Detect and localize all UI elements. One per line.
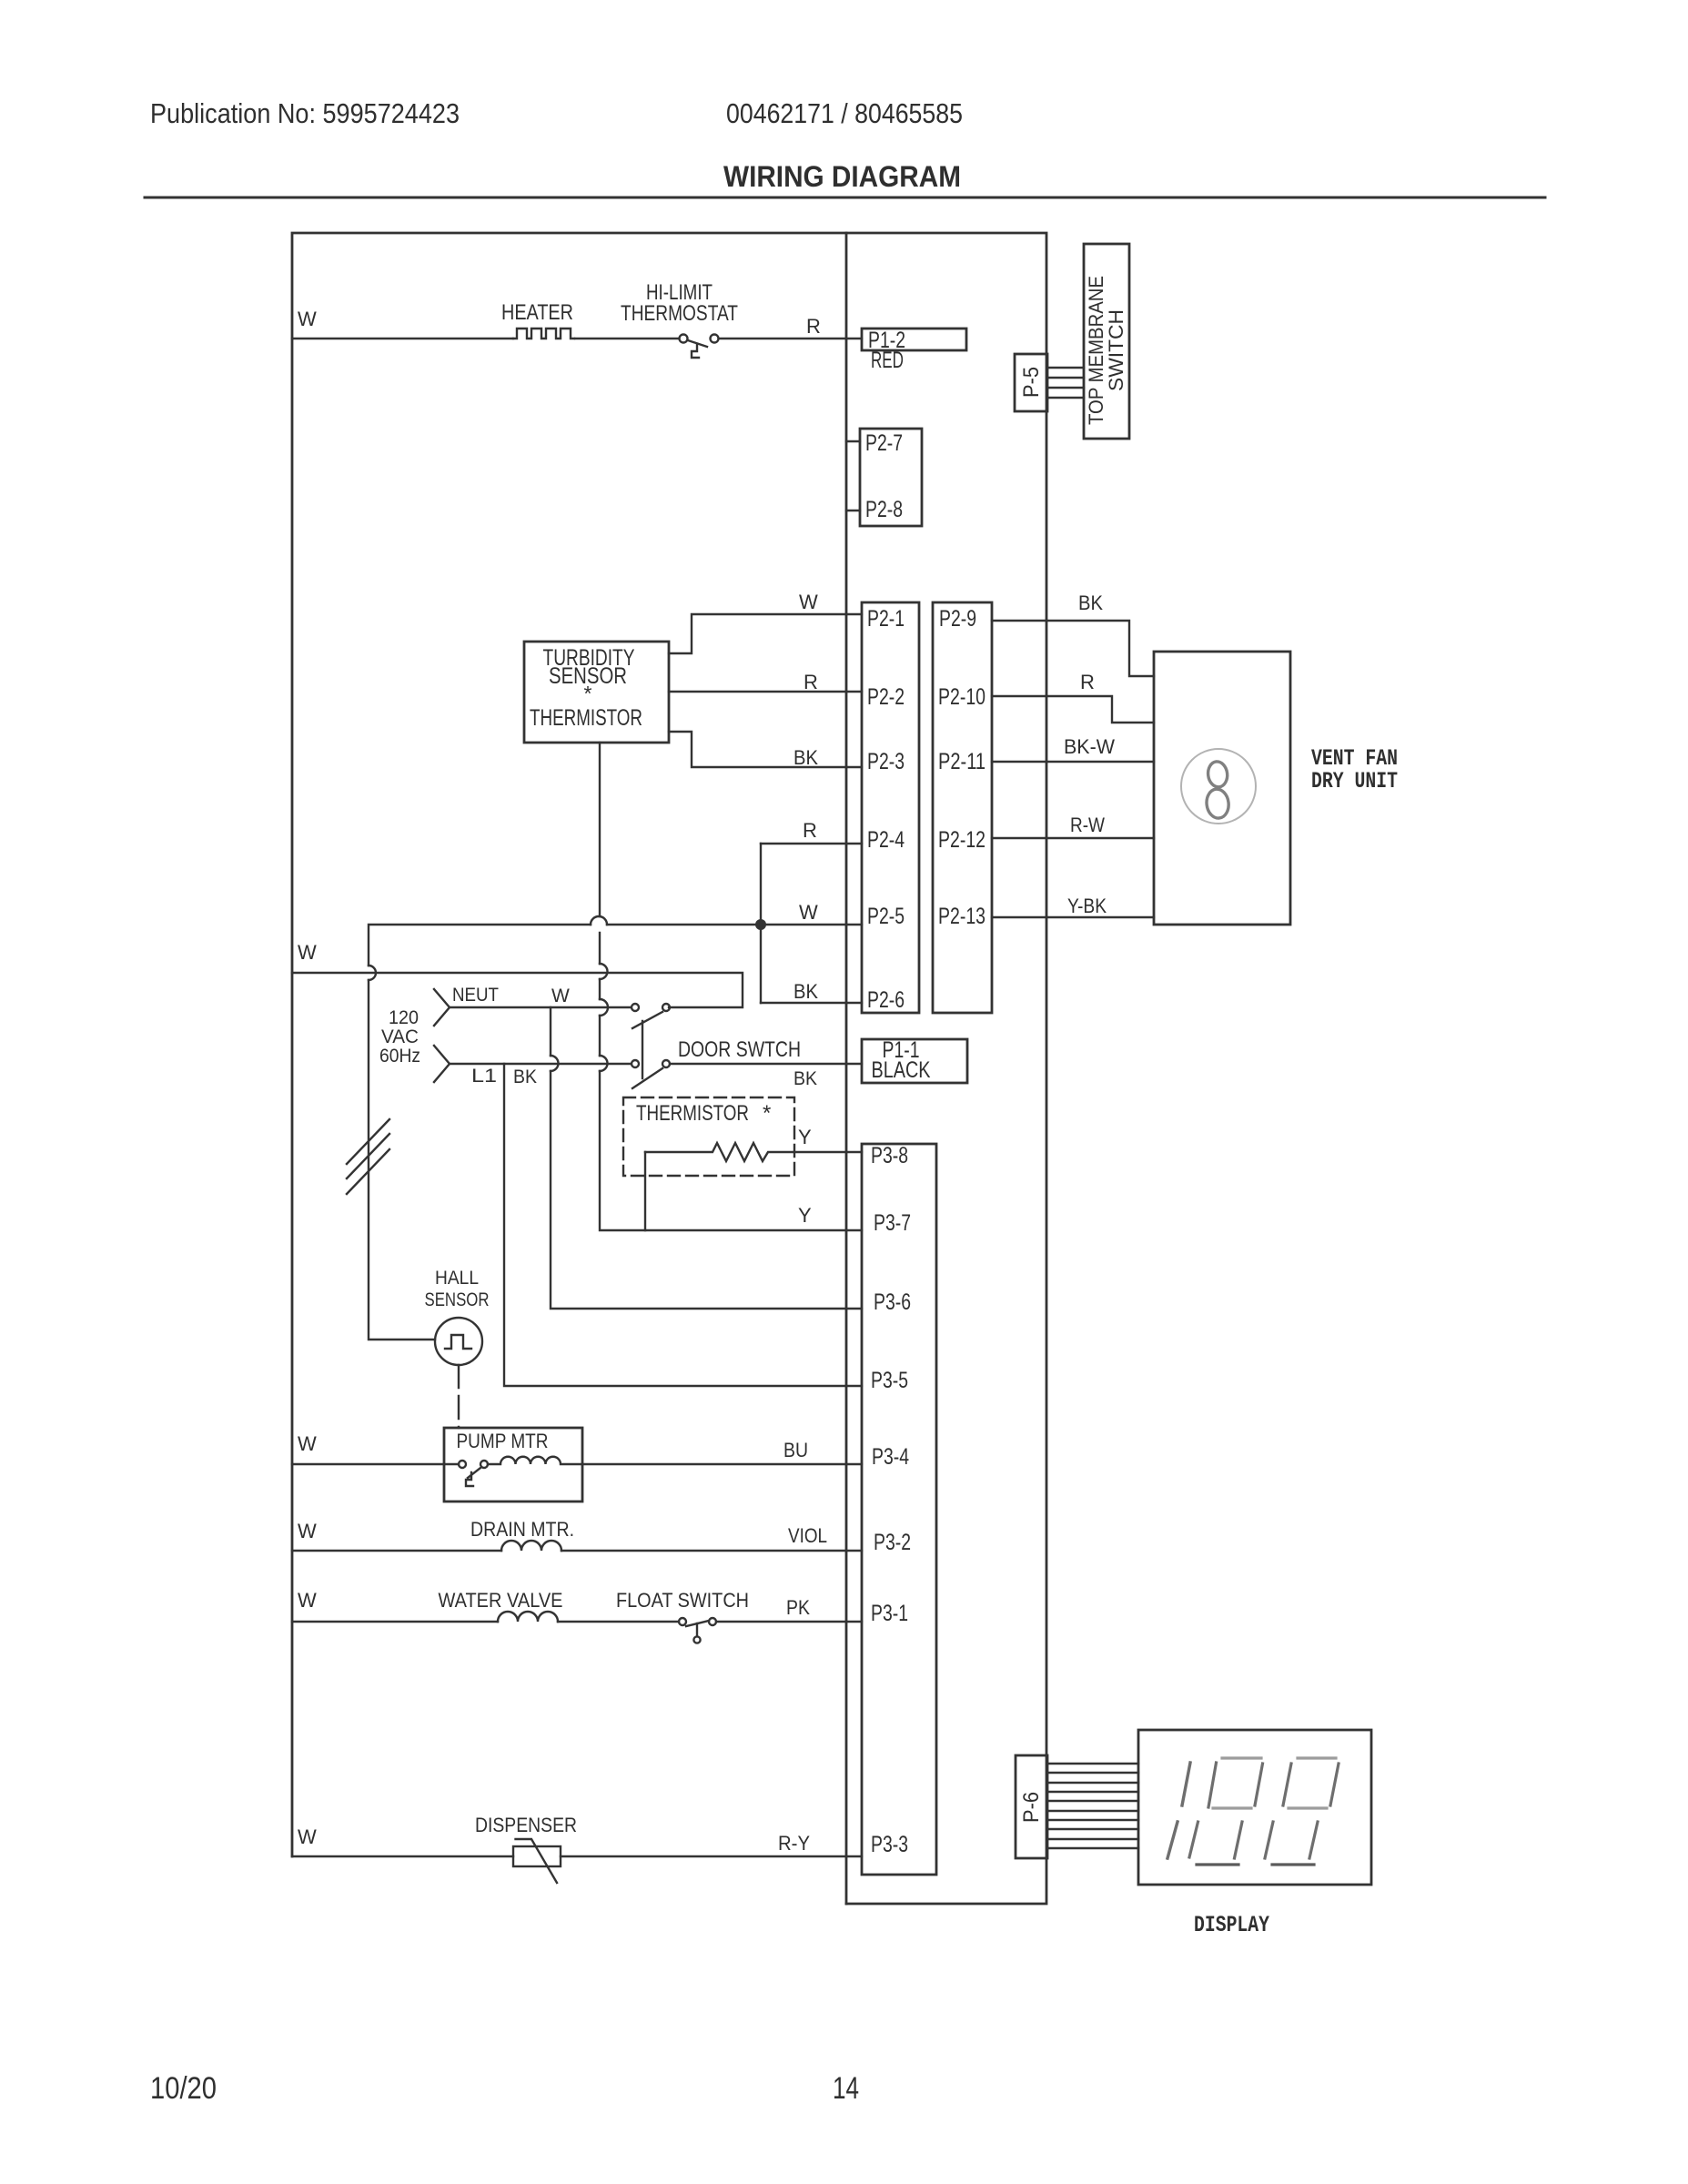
svg-text:P2-7: P2-7: [865, 430, 903, 456]
svg-text:R: R: [1080, 671, 1095, 693]
svg-text:THERMOSTAT: THERMOSTAT: [621, 301, 738, 326]
svg-text:P2-1: P2-1: [867, 606, 905, 632]
svg-text:W: W: [298, 941, 317, 964]
svg-text:RED: RED: [871, 348, 904, 373]
svg-text:W: W: [298, 1825, 317, 1848]
svg-text:P2-12: P2-12: [938, 827, 986, 853]
wire P2-11 BK-W to vent fan: [992, 761, 1154, 763]
svg-text:NEUT: NEUT: [452, 985, 499, 1006]
svg-text:THERMISTOR: THERMISTOR: [636, 1101, 749, 1126]
wire drain to P3-2: [561, 1550, 862, 1552]
hall sensor dashed lead: [458, 1365, 460, 1428]
hop turbidity vertical over neutral wires: [600, 964, 608, 979]
svg-text:BK: BK: [793, 1068, 817, 1089]
wire turbidity R to P2-2: [669, 691, 862, 693]
svg-text:BLACK: BLACK: [872, 1057, 931, 1083]
display box: [1138, 1730, 1371, 1885]
svg-text:P-6: P-6: [1019, 1792, 1044, 1823]
hop W wire over turbidity vertical: [591, 916, 607, 925]
thermistor resistor: [645, 1143, 862, 1161]
svg-text:P3-8: P3-8: [871, 1143, 908, 1168]
wire thermostat to P1-2: [719, 338, 862, 339]
svg-text:120: 120: [389, 1007, 419, 1028]
svg-text:P3-3: P3-3: [871, 1832, 908, 1857]
wire P2-6 stub: [761, 1002, 862, 1004]
svg-text:VIOL: VIOL: [788, 1524, 827, 1547]
svg-text:R: R: [804, 671, 818, 693]
svg-text:HALL: HALL: [435, 1268, 479, 1289]
svg-text:R-W: R-W: [1070, 814, 1105, 836]
pump motor box: [444, 1428, 582, 1501]
wire P2-4 stub: [761, 843, 862, 844]
wires P-6 to display: [1047, 1764, 1138, 1848]
seven segment digit 8 second: [1265, 1758, 1339, 1865]
svg-text:P2-8: P2-8: [865, 497, 903, 522]
svg-text:Y-BK: Y-BK: [1067, 895, 1107, 917]
svg-text:W: W: [298, 308, 317, 330]
svg-text:WATER VALVE: WATER VALVE: [439, 1589, 563, 1612]
wire thermistor drop: [644, 1152, 646, 1230]
hop x405 vertical around W loop wire: [369, 966, 376, 980]
svg-text:*: *: [584, 682, 592, 705]
svg-text:DOOR SWTCH: DOOR SWTCH: [678, 1037, 801, 1062]
dispenser element: [513, 1846, 561, 1866]
wire turbidity W to P2-1: [669, 614, 862, 653]
svg-text:WIRING DIAGRAM: WIRING DIAGRAM: [723, 160, 961, 193]
wire pump to P3-4: [582, 1463, 862, 1465]
seven segment digit 1: [1167, 1763, 1190, 1858]
svg-text:BK: BK: [513, 1067, 537, 1087]
svg-text:DISPENSER: DISPENSER: [475, 1814, 577, 1836]
svg-text:P-5: P-5: [1019, 367, 1044, 398]
pump motor winding: [488, 1457, 582, 1464]
wire door switch to P1-1: [670, 1063, 862, 1065]
wire W to water valve: [292, 1621, 498, 1623]
wire float switch to P3-1: [716, 1621, 862, 1623]
svg-text:SENSOR: SENSOR: [425, 1289, 490, 1310]
svg-text:P2-5: P2-5: [867, 904, 905, 929]
heater element coil: [513, 329, 574, 339]
supply L1 chevron: [434, 1046, 450, 1082]
svg-text:P2-3: P2-3: [867, 749, 905, 774]
svg-text:10/20: 10/20: [150, 2071, 217, 2106]
svg-text:BK: BK: [1078, 591, 1103, 614]
wire dispenser to P3-3: [561, 1855, 862, 1857]
hall sensor pulse glyph: [445, 1335, 471, 1349]
wire L1 to door switch: [450, 1063, 631, 1065]
svg-text:PK: PK: [786, 1596, 810, 1619]
wire turbidity BK to P2-3: [669, 732, 862, 767]
connector P1-2 box: [862, 329, 966, 350]
svg-text:FLOAT SWITCH: FLOAT SWITCH: [616, 1589, 749, 1612]
wire P2-12 R-W to vent fan: [992, 837, 1154, 839]
pump motor switch: [459, 1461, 466, 1468]
svg-text:P2-10: P2-10: [938, 684, 986, 710]
svg-text:P2-2: P2-2: [867, 684, 905, 710]
svg-text:W: W: [298, 1520, 317, 1542]
wire stub P2-8: [846, 510, 860, 511]
thermistor dashed box: [623, 1097, 794, 1176]
svg-text:R-Y: R-Y: [778, 1832, 810, 1855]
svg-text:VAC: VAC: [381, 1026, 419, 1047]
svg-text:P3-5: P3-5: [871, 1368, 908, 1393]
thermostat switch: [680, 335, 688, 343]
svg-text:60Hz: 60Hz: [379, 1046, 420, 1067]
svg-text:P2-6: P2-6: [867, 987, 905, 1013]
svg-text:THERMISTOR: THERMISTOR: [530, 705, 642, 731]
svg-text:W: W: [298, 1432, 317, 1455]
wire P2-13 Y-BK to vent fan: [992, 916, 1154, 918]
connector P2 column2 box: [933, 602, 992, 1013]
turbidity sensor box: [524, 642, 669, 743]
wire water valve to float switch: [558, 1621, 679, 1623]
connector P1-1 box: [862, 1039, 967, 1083]
svg-text:DRY UNIT: DRY UNIT: [1311, 768, 1398, 794]
svg-text:DISPLAY: DISPLAY: [1194, 1912, 1269, 1938]
top membrane switch box: [1084, 244, 1129, 439]
svg-text:Y: Y: [798, 1204, 812, 1227]
svg-text:Publication No: 5995724423: Publication No: 5995724423: [150, 97, 460, 129]
svg-text:P3-1: P3-1: [871, 1601, 908, 1626]
control board vertical bus: [845, 233, 848, 1904]
wire BK riser L1 to P3-5: [504, 1064, 862, 1386]
wire turbidity thermistor drop to P3-7: [600, 743, 862, 1230]
svg-text:W: W: [799, 901, 818, 924]
wire heater row W: [292, 338, 513, 339]
hall sensor circle: [435, 1318, 482, 1365]
wire W bus to P2-5 (upper): [369, 925, 862, 966]
door switch upper pole: [632, 1004, 639, 1011]
svg-text:DRAIN MTR.: DRAIN MTR.: [470, 1518, 574, 1541]
wire neutral to door switch: [450, 1006, 631, 1008]
outer enclosure frame: [292, 233, 1046, 1904]
svg-text:R: R: [803, 819, 817, 842]
wire P2-10 R to vent fan: [992, 696, 1154, 723]
svg-text:P3-4: P3-4: [872, 1444, 909, 1470]
door switch link: [642, 1021, 643, 1078]
vent fan dry unit box: [1154, 652, 1290, 925]
wire W bus to hall sensor: [369, 980, 435, 1340]
connector P-5 box: [1015, 354, 1047, 411]
wire W bus lower loop to door switch: [292, 973, 743, 1007]
hop W riser around L1 wire: [551, 1056, 559, 1071]
svg-text:R: R: [806, 315, 821, 338]
svg-text:HEATER: HEATER: [501, 300, 573, 325]
svg-text:P2-11: P2-11: [938, 749, 986, 774]
water valve winding: [498, 1612, 558, 1622]
svg-text:Y: Y: [798, 1126, 812, 1148]
svg-text:BK-W: BK-W: [1064, 735, 1115, 758]
svg-text:00462171 / 80465585: 00462171 / 80465585: [726, 97, 963, 129]
wire W riser neutral to P3-6: [551, 1007, 862, 1309]
svg-text:P3-7: P3-7: [874, 1210, 911, 1236]
vent fan symbol: [1181, 749, 1256, 824]
float switch: [679, 1618, 686, 1625]
wire W to pump motor: [292, 1463, 459, 1465]
connector P2 column1 box: [862, 602, 919, 1013]
wire P2-9 BK to vent fan: [992, 621, 1154, 676]
svg-text:L1: L1: [471, 1066, 497, 1087]
svg-text:BK: BK: [793, 980, 818, 1003]
wire W to dispenser: [292, 1855, 513, 1857]
svg-text:W: W: [799, 591, 818, 613]
svg-text:*: *: [763, 1101, 771, 1126]
svg-text:PUMP MTR: PUMP MTR: [457, 1430, 549, 1452]
svg-text:SWITCH: SWITCH: [1105, 309, 1127, 391]
seven segment digit 8 first: [1189, 1758, 1263, 1865]
title rule: [145, 197, 1545, 199]
wire stub P2-7: [846, 440, 860, 442]
drain motor winding: [501, 1541, 561, 1551]
door switch lower pole: [632, 1060, 639, 1067]
connector P3 box: [862, 1144, 936, 1875]
wire W to drain motor: [292, 1550, 501, 1552]
wire riser P2-4 P2-6: [760, 844, 762, 1003]
svg-text:P3-2: P3-2: [874, 1530, 911, 1555]
svg-text:P2-4: P2-4: [867, 827, 905, 853]
svg-text:W: W: [298, 1589, 317, 1612]
connector P2-7 P2-8 box: [860, 429, 922, 526]
svg-text:P2-9: P2-9: [939, 606, 976, 632]
svg-text:W: W: [551, 986, 570, 1006]
strain relief slashes: [347, 1119, 389, 1194]
svg-text:14: 14: [833, 2071, 859, 2106]
supply neutral chevron: [434, 989, 450, 1026]
svg-text:P3-6: P3-6: [874, 1289, 911, 1315]
svg-text:P2-13: P2-13: [938, 904, 986, 929]
wires P-5 to membrane switch: [1047, 367, 1084, 369]
connector P-6 box: [1016, 1755, 1047, 1858]
wire heater to thermostat: [575, 338, 679, 339]
svg-text:BU: BU: [783, 1439, 808, 1461]
junction dot W/P2-5: [755, 919, 766, 930]
svg-text:BK: BK: [793, 746, 818, 769]
